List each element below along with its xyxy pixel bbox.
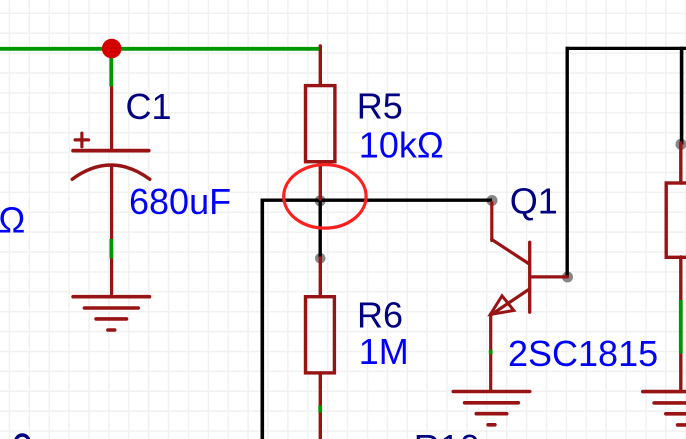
- svg-text:0Ω: 0Ω: [0, 200, 25, 241]
- svg-text:R10: R10: [414, 427, 480, 439]
- svg-text:Q1: Q1: [510, 181, 558, 222]
- svg-text:1M: 1M: [359, 331, 409, 372]
- svg-text:R6: R6: [357, 294, 403, 335]
- svg-text:10kΩ: 10kΩ: [359, 124, 444, 165]
- svg-text:R5: R5: [357, 86, 403, 127]
- svg-text:C1: C1: [126, 86, 172, 127]
- svg-text:680uF: 680uF: [129, 181, 231, 222]
- svg-text:2SC1815: 2SC1815: [508, 333, 658, 374]
